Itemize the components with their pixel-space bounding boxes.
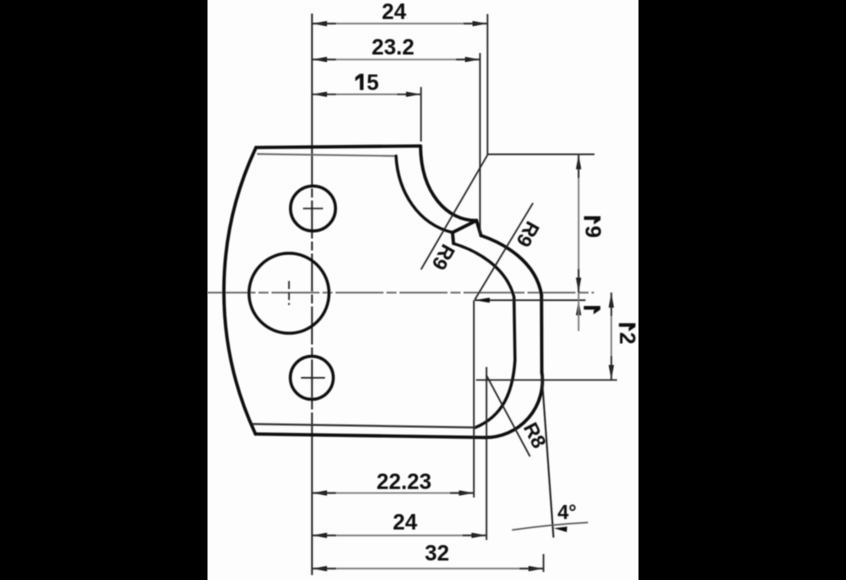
extension line y=154.3 for dim 19	[488, 153, 595, 155]
hole top	[291, 186, 336, 231]
dim line 32	[312, 568, 544, 570]
fillet arc R8 (outer)	[485, 372, 543, 438]
bottom bevel line (inner)	[253, 424, 476, 428]
arrow left dim 22.23	[312, 490, 327, 495]
4 degree reference line	[542, 376, 554, 538]
arrow bottom dim 12	[609, 365, 614, 380]
arrow left dim 23.2	[312, 57, 327, 62]
arrow left dim 24 bottom	[312, 533, 327, 538]
horizontal centerline of part	[208, 292, 595, 294]
cove arc R9 (inner bevel)	[396, 156, 453, 233]
arrow right dim 24 top	[473, 21, 488, 26]
dim line 24 bottom	[312, 534, 487, 536]
arrow right dim 23.2	[465, 57, 480, 62]
extension line x=480 for dim 23.2	[479, 53, 481, 234]
convex lobe arc (inner bevel) with inner fillet	[454, 244, 516, 428]
arrow on y=300.2 line pointing at part edge	[475, 298, 490, 303]
convex lobe arc R9 (outer)	[481, 236, 542, 296]
vertical hole centerline / extension line x=312 (above part)	[311, 14, 313, 148]
extension line x=486.5 through R8 center for dim 24 bottom	[486, 367, 488, 540]
leader line R8	[487, 376, 531, 457]
extension line x=421 for dim 15	[420, 87, 422, 142]
top bevel line (inner)	[257, 154, 396, 156]
arrow right dim 24 bottom	[472, 533, 487, 538]
svg-text:23.2: 23.2	[372, 35, 415, 60]
dim line 23.2	[312, 59, 480, 61]
arrow below dim 1	[576, 300, 581, 315]
arrow left dim 32	[312, 566, 327, 571]
dim line 15	[312, 93, 421, 95]
extension line y=380 for dim 12 through R8 center	[476, 379, 617, 381]
leader line R9 right	[475, 203, 533, 300]
hole bottom center tick	[301, 377, 325, 379]
svg-text:2: 2	[615, 332, 640, 344]
svg-text:4°: 4°	[557, 502, 576, 524]
arrow on 4 degree arc	[554, 527, 567, 532]
arrow right dim 15	[406, 92, 421, 97]
extension line x=487.5 for dim 24 top	[487, 14, 489, 155]
arrow top dim 12	[609, 293, 614, 308]
extension line y=300.2 for dim 1	[475, 299, 586, 301]
hole middle center tick	[288, 281, 290, 305]
svg-text:9: 9	[581, 226, 606, 238]
arrow right dim 22.23	[459, 490, 474, 495]
dim line 1	[578, 293, 580, 301]
svg-text:24: 24	[393, 510, 418, 535]
svg-text:32: 32	[425, 541, 449, 566]
label 19 (rotated, 1 drawn as path)	[584, 216, 600, 220]
dim line 22.23	[312, 492, 474, 494]
angular dim arc 4 degrees	[512, 523, 588, 531]
part bottom edge	[256, 434, 485, 438]
arrow left dim 24 top	[312, 21, 327, 26]
arrow top dim 19	[576, 154, 581, 169]
svg-text:22.23: 22.23	[376, 469, 431, 494]
dark stubs near arrowheads	[312, 24, 611, 569]
vertical extension line x=312 (below part)	[311, 437, 313, 575]
white drawing sheet	[208, 0, 639, 580]
dim line 19	[578, 154, 580, 292]
tail line below dim 1 arrow	[578, 300, 580, 331]
label 15 (1 drawn as path)	[360, 74, 364, 90]
label 1 (rotated, drawn as path)	[584, 306, 600, 310]
label 12 (rotated, 1 drawn as path)	[619, 323, 635, 327]
leader line R9 left	[421, 155, 488, 270]
extension line x=473.9 for dim 22.23	[473, 300, 475, 497]
part right edge	[540, 295, 544, 372]
short edge from cove end to lobe start	[477, 221, 482, 236]
arrow left dim 15	[312, 92, 327, 97]
hole middle (counterbore)	[249, 253, 329, 333]
vertical hole centerline x=312 (inside part, dashed)	[311, 148, 313, 438]
arrow bottom dim 19	[576, 278, 581, 293]
arrow right dim 32	[529, 566, 544, 571]
svg-text:24: 24	[382, 0, 407, 24]
dim line 24 top	[312, 23, 488, 25]
hole top center tick	[303, 208, 323, 210]
part left edge arc	[224, 148, 256, 435]
cove arc R9 (outer)	[421, 146, 477, 221]
extension tick x=543.5 for dim 32	[543, 554, 545, 572]
svg-text:5: 5	[367, 70, 379, 95]
hole bottom	[290, 356, 333, 399]
quirk step edges at notch	[453, 221, 477, 244]
part top edge	[256, 146, 421, 148]
dim line 12	[610, 293, 612, 380]
